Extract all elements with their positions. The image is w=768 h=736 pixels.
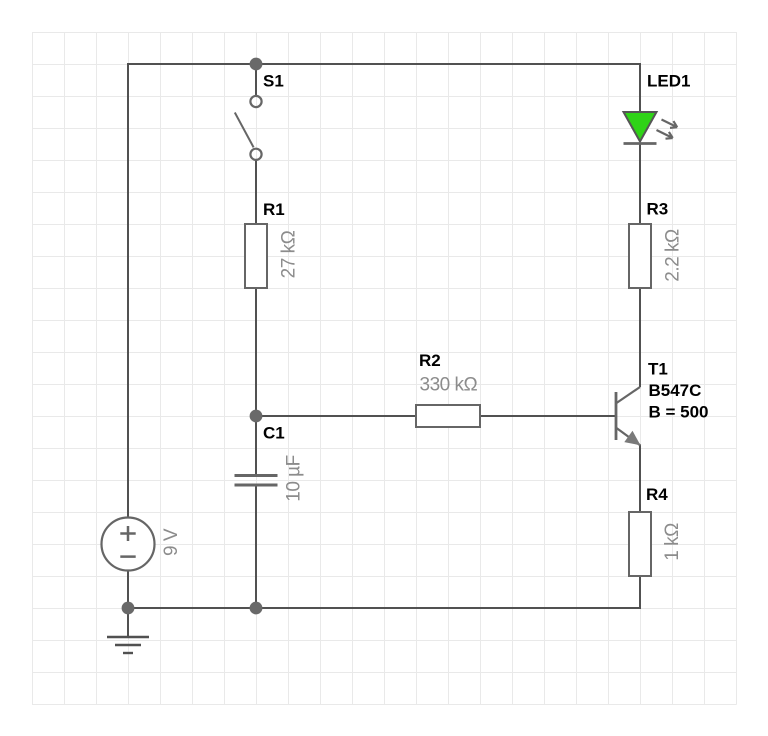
wire — [255, 288, 257, 474]
LED LED1 — [624, 112, 678, 144]
svg-text:B547C: B547C — [649, 381, 702, 400]
svg-text:LED1: LED1 — [647, 72, 690, 91]
svg-text:R4: R4 — [646, 485, 668, 504]
node junction — [250, 602, 263, 615]
svg-text:R2: R2 — [419, 351, 441, 370]
wire — [639, 288, 641, 387]
switch S1 — [235, 96, 262, 160]
svg-text:R3: R3 — [647, 200, 669, 219]
wire — [255, 487, 257, 609]
resistor R3 — [629, 224, 651, 288]
resistor R4 — [629, 512, 651, 576]
transistor T1 — [616, 387, 641, 446]
resistor R1 — [245, 224, 267, 288]
svg-text:1 kΩ: 1 kΩ — [662, 523, 683, 561]
svg-text:T1: T1 — [648, 360, 668, 379]
svg-text:2.2 kΩ: 2.2 kΩ — [663, 229, 684, 282]
wire — [255, 160, 257, 224]
wire — [128, 64, 640, 518]
ground — [107, 637, 149, 653]
svg-text:S1: S1 — [263, 72, 284, 91]
wire — [128, 571, 640, 609]
svg-text:10 µF: 10 µF — [284, 455, 305, 501]
resistor R2 — [416, 405, 480, 427]
capacitor C1 — [235, 476, 278, 486]
node junction — [250, 58, 263, 71]
node junction — [122, 602, 135, 615]
svg-text:C1: C1 — [263, 424, 285, 443]
wire — [127, 608, 129, 637]
wire — [639, 445, 641, 512]
svg-text:R1: R1 — [263, 200, 285, 219]
svg-text:9 V: 9 V — [161, 528, 182, 556]
svg-text:27 kΩ: 27 kΩ — [279, 230, 300, 278]
wire — [256, 415, 416, 417]
wire — [480, 415, 615, 417]
svg-text:330 kΩ: 330 kΩ — [420, 375, 478, 396]
node junction — [250, 410, 263, 423]
svg-text:B = 500: B = 500 — [649, 402, 709, 421]
voltage source V1 9V — [102, 518, 155, 571]
wire — [639, 144, 641, 225]
wire — [255, 64, 257, 96]
